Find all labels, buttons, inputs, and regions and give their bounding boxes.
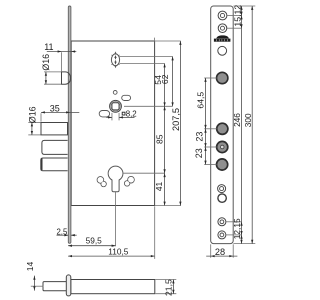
dim line 54/85/41 [164, 64, 166, 206]
right dim extensions [227, 15, 241, 17]
dim 110,5 line [68, 255, 155, 257]
label square 8,2 [122, 112, 125, 115]
keyhole center extension [123, 172, 164, 174]
dim D16 bolt ext bottom [28, 134, 40, 136]
svg-text:64,5: 64,5 [195, 92, 205, 109]
svg-text:23: 23 [195, 132, 205, 142]
follower outer [110, 100, 122, 112]
svg-text:28: 28 [215, 247, 225, 257]
svg-text:41: 41 [154, 182, 164, 192]
keyhole euro profile [108, 166, 123, 192]
pin centerline [31, 285, 44, 287]
dim line 62 [172, 57, 174, 107]
svg-text:11: 11 [44, 42, 53, 52]
spindle hub [111, 54, 119, 66]
svg-text:21,5: 21,5 [164, 279, 174, 296]
latch pin bottom view [43, 282, 67, 291]
dim 2,5 line left [57, 234, 69, 236]
latch bolt [61, 72, 70, 84]
dim D16 latch line [45, 72, 47, 84]
follower center extension [124, 105, 173, 107]
svg-text:246: 246 [232, 113, 242, 127]
dim 59,5 line [68, 245, 115, 247]
svg-text:14: 14 [25, 262, 35, 272]
svg-text:207,5: 207,5 [171, 108, 181, 131]
oval slot upper right [122, 95, 131, 100]
screw hole bottom 1 [218, 218, 226, 226]
bolt hole 2 (filled) [217, 141, 228, 152]
svg-text:Ø16: Ø16 [41, 54, 51, 71]
follower ring [111, 102, 121, 112]
wire body top extension [155, 40, 181, 42]
spindle point ticks [114, 51, 117, 54]
dim line 300 [251, 6, 253, 244]
screw slot right of keyhole [124, 176, 134, 186]
dim 14 line [33, 276, 35, 291]
svg-text:300: 300 [243, 113, 253, 127]
extension body right corner down [154, 206, 156, 259]
dim D16 bolt ext top [28, 122, 40, 124]
screw hole bottom 2 [218, 231, 226, 239]
cylinder hole (filled) [217, 72, 228, 83]
dim D16 bolt line [31, 123, 33, 135]
dim sq8.2 arrowline left [106, 116, 112, 118]
dim 21,5 ext top [155, 279, 176, 281]
dim 21,5 line [172, 280, 174, 294]
spindle ext upper [119, 56, 172, 58]
svg-text:110,5: 110,5 [108, 246, 129, 256]
bolt hole 1 (filled) [217, 123, 228, 134]
bolt guide B cap [41, 159, 43, 171]
dim 2,5 line right [71, 234, 77, 236]
dim line 15/12/246 [241, 6, 243, 244]
faceplate side view [68, 6, 71, 243]
hole below logo [218, 46, 227, 55]
faceplate front view outline [211, 6, 234, 244]
screw hole top 1 [218, 11, 227, 20]
svg-text:12,15: 12,15 [232, 218, 242, 239]
small hole [113, 91, 117, 95]
lock body bottom view [71, 280, 155, 294]
faceplate edge-on slab [66, 275, 71, 296]
bolt hole 3 (filled) [217, 159, 228, 170]
dim sq8.2 ext right [118, 113, 120, 121]
svg-text:23: 23 [194, 148, 204, 158]
screw hole mid 1 [218, 185, 226, 193]
dim sq8.2 arrowline right [119, 116, 134, 118]
spindle ext lower [120, 63, 165, 65]
dim sq8.2 ext left [111, 113, 113, 121]
svg-text:Ø16: Ø16 [28, 106, 38, 123]
svg-text:15,12: 15,12 [232, 5, 242, 27]
svg-text:59,5: 59,5 [86, 235, 103, 245]
screw slot left of keyhole [97, 177, 106, 187]
dim 21,5 ext bottom [155, 293, 176, 295]
body corner overshoot tick [153, 38, 155, 42]
dim 35 line [41, 111, 79, 113]
svg-text:35: 35 [50, 103, 60, 113]
svg-text:8,2: 8,2 [126, 110, 137, 119]
follower square hole [112, 103, 119, 110]
hole mid 2 [218, 194, 226, 202]
dim D16 latch ext bottom [44, 83, 61, 85]
bolt guide A [42, 140, 68, 154]
lock body rectangle [71, 41, 154, 206]
svg-text:85: 85 [154, 134, 164, 144]
dim 35 extension [40, 113, 42, 121]
dim line 207,5 [179, 41, 181, 206]
oval slot lower left [99, 111, 109, 117]
bolt guide B [41, 158, 68, 171]
dim D16 latch ext top [44, 71, 61, 73]
keyhole centerline down [115, 192, 117, 246]
left dim extensions 64,5/23/23 [204, 77, 216, 79]
wire body bottom extension [155, 205, 181, 207]
brand logo stamp [216, 35, 229, 38]
svg-text:62: 62 [160, 74, 170, 84]
dim line 64,5/23/23 [205, 78, 207, 165]
deadbolt [41, 123, 68, 135]
screw hole top 2 [218, 24, 227, 33]
dim 28 [210, 244, 212, 257]
dim 11 line [47, 51, 77, 53]
dim 11 extension line [61, 52, 63, 71]
spindle arrows [115, 57, 117, 62]
